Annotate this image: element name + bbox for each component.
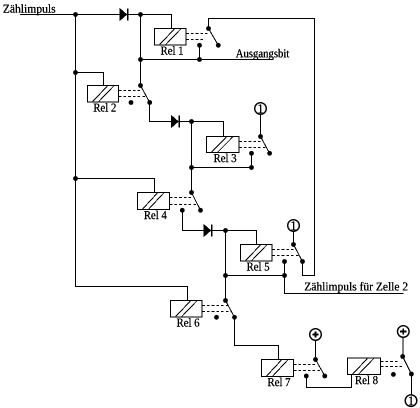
contact S3 armature knob [267,151,272,156]
contact S8 open fixed contact [391,372,396,377]
wire S2 knob to diode D2 [150,103,172,122]
contact S2 pivot [138,83,143,88]
contact S7 armature [316,360,325,377]
linkage dashes Rel 1 upper [186,33,207,35]
junction y275 bus / Zelle 2 out [282,273,287,278]
junction node D1 cathode [138,12,143,17]
wire S8 knob to symbol 1 [410,374,412,395]
wire left bus to Rel 4 coil [76,179,155,193]
contact S2 armature [141,86,150,103]
contact S5 pivot [291,242,296,247]
wire left bus to Rel 2 coil [76,73,104,86]
label Ausgangsbit (output net) [236,49,289,60]
linkage dashes Rel 3 lower [239,147,266,149]
wire D2 node down to contact S4 pivot [191,122,193,193]
wire symbol-1 to contact S5 pivot [293,232,295,245]
wire Ausgangsbit bus [141,59,274,61]
source symbol + above S8 [398,326,410,338]
contact S3 pivot [258,134,263,139]
contact S5 armature [294,245,303,262]
junction left bus / Rel 2 feed [73,70,78,75]
wire contact S1 pivot to right loop to S5 throw [209,19,315,276]
linkage dashes Rel 6 upper [202,305,227,307]
contact S6 open fixed contact [214,315,219,320]
contact S4 pivot [189,190,194,195]
linkage dashes Rel 2 upper [119,90,142,92]
linkage dashes Rel 7 upper [294,364,318,366]
linkage dashes Rel 4 lower [170,204,198,206]
linkage dashes Rel 8 lower [381,366,402,368]
wire D3 cathode to Rel 5 coil [212,231,257,245]
label Zählimpuls (input net) [3,4,55,15]
wire S4 contact to diode D3 [182,210,204,230]
contact S1 armature [209,29,219,46]
contact S1 fixed contact [197,43,202,48]
label Zählimpuls für Zelle 2 [305,282,408,293]
wire symbol-+ to contact S8 pivot [402,338,404,357]
sink symbol 1 below S8 [405,395,417,407]
contact S4 armature [192,193,201,211]
contact S1 pivot [206,26,211,31]
wire S5 contact bus [226,275,285,277]
wire S7 fixed contact to Rel 8 coil [306,375,351,388]
source symbol 1 above S3 [255,103,267,115]
wire S5 fixed contact down to bus [284,262,286,276]
relay coil Rel 3 [207,137,240,163]
contact S4 fixed contact [180,208,185,213]
source symbol + above S7 [310,329,322,341]
wire left supply bus to Rel 6 coil [76,15,188,301]
wire S3 fixed contact down to bus [251,153,253,167]
contact S3 fixed contact [249,151,254,156]
linkage dashes Rel 2 lower [119,96,146,98]
contact S3 armature [261,137,270,154]
relay coil Rel 4 [138,193,170,220]
wire D3 node down to contact S6 pivot [225,231,227,301]
relay coil Rel 8 [348,358,381,384]
wire S3 contact bus [192,167,252,169]
contact S1 armature knob [216,43,221,48]
wire D1 node to contact S2 pivot [140,15,142,86]
linkage dashes Rel 1 lower [186,39,204,41]
wire Zählimpuls input [20,14,120,16]
wire symbol-+ to contact S7 pivot [315,341,317,360]
contact S7 pivot [313,357,318,362]
junction S1 contact / Ausgangsbit bus [197,57,202,62]
contact S5 armature knob [300,259,305,264]
wire symbol-1 to contact S3 pivot [260,115,262,137]
contact S7 armature knob [322,374,327,379]
linkage dashes Rel 4 upper [170,197,195,199]
diode D3 [204,225,212,237]
contact S5 fixed contact [282,259,287,264]
source symbol 1 above S5 [288,220,300,232]
wire S1 fixed contact to Ausgangsbit [199,45,201,59]
linkage dashes Rel 5 upper [272,249,295,251]
relay coil Rel 5 [241,245,273,271]
wire D1 cathode to Rel 1 coil [128,15,172,29]
contact S4 armature knob [198,208,203,213]
linkage dashes Rel 7 lower [294,370,321,372]
junction left bus / Rel 4 feed [73,176,78,181]
contact S6 armature knob [232,315,237,320]
junction node Zählimpuls / left bus [73,12,78,17]
linkage dashes Rel 5 lower [272,255,299,257]
junction y167 bus left [189,165,194,170]
linkage dashes Rel 8 upper [381,361,400,363]
relay coil Rel 2 [88,86,119,112]
junction Ausgangsbit bus [138,57,143,62]
contact S2 armature knob [147,100,152,105]
linkage dashes Rel 6 lower [202,311,231,313]
relay coil Rel 7 [262,360,294,387]
wire Zählimpuls für Zelle 2 output [285,276,404,294]
junction y167 bus right [249,165,254,170]
contact S6 pivot [223,298,228,303]
contact S2 open fixed contact [129,100,134,105]
linkage dashes Rel 3 upper [239,141,262,143]
relay coil Rel 1 [155,29,187,55]
wire D2 cathode to Rel 3 coil [179,122,223,137]
junction y275 bus left [223,273,228,278]
diode D1 [120,9,128,21]
contact S8 armature [403,357,412,375]
relay coil Rel 6 [171,301,203,327]
junction D3 cathode node [223,228,228,233]
diode D2 [172,116,180,128]
contact S8 pivot [400,354,405,359]
contact S6 armature [226,301,235,318]
contact S7 fixed contact [304,374,309,379]
junction D2 cathode node [189,119,194,124]
wire S6 knob to Rel 7 coil [235,317,279,359]
contact S8 armature knob [409,372,414,377]
